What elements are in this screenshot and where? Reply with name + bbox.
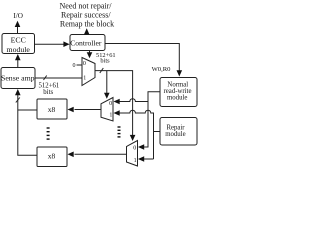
svg-text:0: 0 [109, 101, 112, 107]
svg-text:module: module [165, 131, 185, 138]
svg-text:I/O: I/O [13, 12, 23, 20]
svg-text:Repair success/: Repair success/ [61, 11, 111, 20]
svg-text:0: 0 [133, 146, 136, 152]
svg-text:x8: x8 [48, 152, 56, 161]
svg-text:Sense amp: Sense amp [1, 73, 35, 82]
svg-text:bits: bits [100, 57, 110, 64]
svg-text:module: module [167, 95, 187, 102]
svg-text:1: 1 [134, 158, 137, 164]
svg-text:1: 1 [83, 75, 86, 81]
svg-text:Controller: Controller [70, 39, 102, 48]
svg-text:bits: bits [43, 89, 53, 96]
svg-text:Remap the block: Remap the block [60, 20, 114, 29]
svg-text:module: module [7, 45, 31, 54]
svg-text:x8: x8 [48, 105, 56, 114]
svg-text:Need not repair/: Need not repair/ [60, 2, 113, 11]
svg-text:W0,R0: W0,R0 [152, 66, 172, 73]
svg-text:1: 1 [109, 112, 112, 118]
svg-text:ECC: ECC [11, 36, 26, 45]
svg-text:0: 0 [73, 63, 76, 69]
svg-text:0: 0 [83, 61, 86, 67]
